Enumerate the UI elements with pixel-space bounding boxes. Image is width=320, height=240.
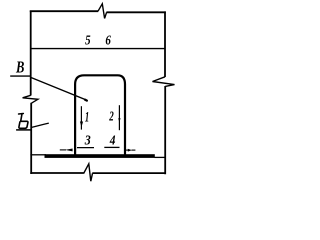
- ground baseline thin left: [30, 154, 46, 156]
- arrow 3 (leftward): [60, 149, 66, 151]
- underline of label 3: [77, 147, 94, 149]
- wall bottom (left segment): [30, 172, 84, 174]
- svg-text:2: 2: [109, 108, 114, 123]
- break symbol on top wall: [98, 4, 107, 19]
- svg-text:3: 3: [84, 134, 91, 149]
- break symbol on right wall: [153, 77, 175, 87]
- leader line from label Б to wall: [32, 123, 49, 127]
- svg-text:6: 6: [105, 33, 111, 48]
- wall top (left segment): [30, 10, 98, 12]
- wall left (lower segment): [30, 103, 32, 174]
- wall bottom (right segment): [92, 172, 166, 174]
- ground slab (thick line): [45, 154, 155, 158]
- wall top (right segment): [106, 11, 165, 13]
- wall left (upper segment): [30, 11, 32, 96]
- break symbol on left wall: [23, 95, 38, 103]
- svg-text:4: 4: [109, 133, 116, 148]
- arch profile (U-shaped duct): [75, 75, 125, 156]
- wall right (lower segment): [164, 86, 166, 174]
- svg-text:5: 5: [85, 33, 91, 48]
- underline of label B: [10, 75, 30, 77]
- partition line (ceiling joint): [30, 48, 165, 50]
- label Б (drawn strokes): [19, 114, 28, 129]
- break symbol on bottom wall: [84, 164, 93, 181]
- leader line from label B to arch: [31, 77, 87, 100]
- arrow 2 (downward): [118, 105, 120, 130]
- arrow 4 (rightward): [126, 149, 128, 151]
- arrow 1 (downward): [80, 106, 82, 129]
- underline of label 4: [104, 146, 119, 148]
- wall right (upper segment): [164, 11, 166, 77]
- svg-text:В: В: [15, 58, 24, 77]
- svg-text:1: 1: [85, 110, 89, 126]
- ground baseline thin right: [155, 156, 166, 158]
- underline of label Б: [16, 129, 31, 131]
